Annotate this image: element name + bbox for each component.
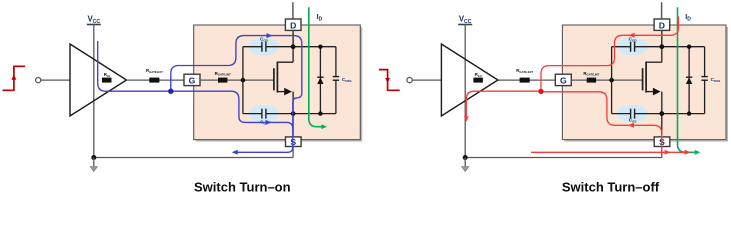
Cgd highlight xyxy=(617,38,648,56)
Cgs highlight xyxy=(248,105,279,123)
MOSFET package box xyxy=(194,25,361,140)
MOSFET package box (shadow) xyxy=(564,27,728,142)
capacitor C_OSS xyxy=(335,47,337,77)
wire source to ground xyxy=(661,147,663,158)
capacitor C_GD xyxy=(630,42,632,52)
node diode bottom xyxy=(687,111,691,115)
Vcc supply rail xyxy=(458,24,472,26)
MOSFET package box (shadow) xyxy=(196,27,363,142)
wire gate internal xyxy=(571,79,642,81)
turn-off current path: source return xyxy=(531,151,686,153)
capacitor C_GS xyxy=(630,109,632,119)
resistor R_GATE,INT xyxy=(587,78,596,83)
turn-on current path: Vcc to gate xyxy=(98,41,171,91)
terminal S xyxy=(654,137,670,147)
wire drain stub xyxy=(292,2,294,19)
wire bottom rail xyxy=(612,113,631,115)
node gate-return junction (red) xyxy=(538,89,543,94)
node source xyxy=(659,111,664,116)
wire top rail xyxy=(612,46,631,48)
node diode bottom xyxy=(318,111,322,115)
svg-text:Switch Turn–on: Switch Turn–on xyxy=(194,179,291,194)
wire top rail xyxy=(243,46,262,48)
terminal G xyxy=(184,74,200,85)
turn-on current path: through Cgs xyxy=(171,91,293,131)
wire input to driver xyxy=(41,79,70,81)
Cgs highlight xyxy=(617,105,648,123)
wire drain xyxy=(661,30,663,62)
resistor R_LO xyxy=(473,78,483,83)
wire gate vertical xyxy=(242,47,244,114)
node drain xyxy=(659,44,664,49)
turn-off current path: gate to driver low side xyxy=(466,91,541,116)
svg-text:G: G xyxy=(189,75,196,85)
wire input to driver xyxy=(412,79,441,81)
capacitor C_GS xyxy=(261,109,263,119)
resistor R_GATE,INT xyxy=(218,78,227,83)
gate driver U2 xyxy=(441,44,498,116)
gate driver U1 xyxy=(70,44,127,116)
node source xyxy=(291,111,296,116)
node drain xyxy=(291,44,296,49)
wire source xyxy=(661,92,663,137)
turn-on current path: through Cgd xyxy=(171,36,302,153)
capacitor C_OSS xyxy=(704,47,706,77)
Vcc supply rail xyxy=(87,24,101,26)
wire drain stub xyxy=(661,2,663,19)
node diode top xyxy=(687,45,691,49)
node ground junction xyxy=(463,155,468,160)
wire gate internal xyxy=(200,79,274,81)
body diode D1 xyxy=(319,47,321,114)
svg-text:D: D xyxy=(659,20,665,30)
terminal D xyxy=(654,19,670,30)
turn-off current path: through Cgs xyxy=(541,92,662,153)
turn-off current path: from drain through Cgd xyxy=(541,17,679,92)
resistor R_GATE,EXT xyxy=(520,78,530,83)
input step waveform xyxy=(3,66,26,90)
node gate xyxy=(241,78,246,83)
terminal G xyxy=(555,74,571,85)
node gate-return junction (blue) xyxy=(168,89,173,94)
svg-text:D: D xyxy=(290,20,296,30)
svg-text:Switch Turn–off: Switch Turn–off xyxy=(562,179,660,194)
wire driver output to gate xyxy=(127,79,185,81)
Cgd highlight xyxy=(248,38,279,56)
body diode D2 xyxy=(688,47,690,114)
terminal D xyxy=(285,19,301,30)
resistor R_GATE,EXT xyxy=(149,78,159,83)
ground xyxy=(464,158,466,167)
wire source to ground xyxy=(292,147,294,158)
capacitor C_GD xyxy=(261,42,263,52)
wire bottom rail xyxy=(243,113,262,115)
input terminal xyxy=(407,78,412,83)
input terminal xyxy=(36,78,41,83)
node ground junction xyxy=(91,155,96,160)
MOSFET Q1 xyxy=(273,68,275,90)
wire gate vertical xyxy=(611,47,613,114)
node gate xyxy=(609,78,614,83)
terminal S xyxy=(286,137,302,147)
MOSFET Q2 xyxy=(642,68,644,90)
load current I_D path xyxy=(678,7,695,152)
resistor R_HI xyxy=(102,78,112,83)
load current I_D path xyxy=(309,7,322,126)
svg-text:G: G xyxy=(560,75,567,85)
input step waveform xyxy=(379,70,400,91)
wire drain xyxy=(292,30,294,62)
ground xyxy=(93,158,95,167)
node diode top xyxy=(318,45,322,49)
MOSFET package box xyxy=(562,25,726,140)
wire driver output to gate xyxy=(498,79,555,81)
wire source xyxy=(292,92,294,137)
